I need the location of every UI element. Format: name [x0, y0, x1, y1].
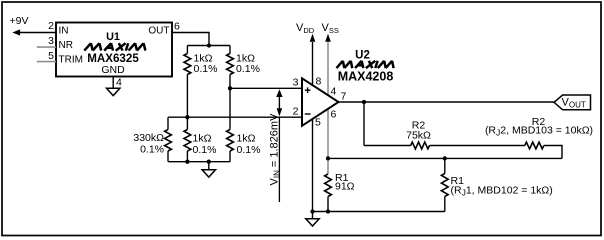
wire feedback node rail — [328, 157, 562, 159]
svg-text:OUT: OUT — [148, 26, 169, 37]
svg-text:7: 7 — [341, 91, 347, 103]
svg-text:8: 8 — [316, 76, 322, 88]
junction + node — [228, 86, 232, 90]
svg-text:2: 2 — [293, 106, 299, 118]
svg-text:0.1%: 0.1% — [237, 144, 261, 156]
svg-text:75kΩ: 75kΩ — [406, 129, 431, 141]
svg-text:0.1%: 0.1% — [236, 63, 260, 75]
wire op-amp output to VOUT — [339, 101, 555, 103]
junction ground rail / R1 — [326, 209, 330, 213]
wire feedback drop from output — [363, 102, 365, 146]
svg-text:U1: U1 — [106, 31, 120, 43]
resistor R2 75k — [364, 142, 525, 149]
wire IN pin with arrow to +9V — [12, 29, 56, 35]
node VOUT tag — [554, 95, 591, 110]
junction ground rail / pin5 — [310, 209, 314, 213]
wire from U1 OUT to divider top — [172, 33, 209, 46]
resistor R1 (RJ1 MBD102) — [441, 158, 448, 211]
resistor 1k 0.1% upper-right — [227, 46, 234, 89]
wire TRIM stub (unconnected) — [37, 61, 56, 63]
svg-text:330kΩ: 330kΩ — [133, 132, 164, 144]
svg-text:(RJ1, MBD102 = 1kΩ): (RJ1, MBD102 = 1kΩ) — [451, 185, 553, 198]
svg-text:0.1%: 0.1% — [193, 144, 217, 156]
svg-text:4: 4 — [116, 77, 122, 89]
wire ground stub (op-amp) — [312, 212, 314, 219]
resistor 1k 0.1% lower-middle — [184, 117, 191, 162]
op-amp U2 triangle — [302, 78, 339, 126]
svg-text:MAX4208: MAX4208 — [338, 70, 394, 84]
junction bottom rail / middle 1k — [185, 160, 189, 164]
U2 MAXIM logo — [337, 61, 394, 68]
wire NR stub (unconnected) — [37, 46, 56, 48]
junction output/feedback — [362, 100, 366, 104]
wire noninverting input (+) — [230, 87, 302, 89]
junction FB/RJ1 — [443, 156, 447, 160]
svg-text:NR: NR — [59, 40, 73, 51]
wire divider bottom rail — [168, 161, 230, 163]
ground symbol under op-amp — [306, 219, 319, 226]
svg-text:IN: IN — [59, 26, 69, 37]
junction bottom rail / ground stub — [207, 160, 211, 164]
wire divider top rail — [187, 45, 230, 47]
wire inverting input (-) rail — [168, 116, 302, 118]
measurement arrow VIN between + and - rails — [276, 89, 282, 116]
svg-text:0.1%: 0.1% — [140, 144, 164, 156]
wire pin 6 FB (gray) down to R1 — [327, 109, 329, 174]
resistor 1k 0.1% lower-right — [227, 88, 234, 161]
svg-text:2: 2 — [48, 20, 54, 32]
junction FB/R1 — [326, 156, 330, 160]
svg-text:(RJ2, MBD103 = 10kΩ): (RJ2, MBD103 = 10kΩ) — [485, 125, 593, 138]
svg-text:0.1%: 0.1% — [194, 63, 218, 75]
junction OUT/top rail — [207, 43, 211, 47]
ground symbol under U1 — [107, 88, 120, 95]
resistor R2 (RJ2 MBD103) — [525, 142, 562, 158]
wire GND pin stub — [112, 77, 114, 89]
svg-text:5: 5 — [48, 50, 54, 62]
svg-text:GND: GND — [101, 64, 125, 76]
wire VDD pin 8 — [310, 34, 316, 85]
svg-text:3: 3 — [293, 77, 299, 89]
wire pin 5 to ground rail — [312, 119, 314, 211]
wire ground rail (op-amp) — [313, 211, 445, 213]
svg-text:91Ω: 91Ω — [335, 181, 355, 193]
resistor 1k 0.1% upper-left — [184, 46, 191, 118]
wire VSS pin 4 (gray) — [325, 34, 331, 95]
svg-text:1kΩ: 1kΩ — [237, 133, 256, 145]
svg-text:4: 4 — [331, 86, 337, 98]
svg-text:TRIM: TRIM — [59, 55, 83, 66]
svg-text:6: 6 — [331, 109, 337, 121]
svg-text:U2: U2 — [355, 50, 370, 62]
ground symbol under divider — [202, 170, 215, 177]
junction - node — [185, 115, 189, 119]
svg-text:+9V: +9V — [10, 15, 29, 27]
resistor 330k 0.1% — [165, 117, 172, 162]
svg-text:1kΩ: 1kΩ — [193, 133, 212, 145]
svg-text:5: 5 — [315, 117, 321, 129]
svg-text:MAX6325: MAX6325 — [87, 52, 139, 65]
IC U1 MAX6325 box — [56, 23, 172, 77]
wire VIN measurement leader line — [278, 117, 280, 202]
svg-text:6: 6 — [174, 21, 180, 33]
wire ground stub (divider) — [208, 162, 210, 170]
resistor R1 91 ohm — [325, 174, 332, 212]
svg-text:3: 3 — [48, 35, 54, 47]
